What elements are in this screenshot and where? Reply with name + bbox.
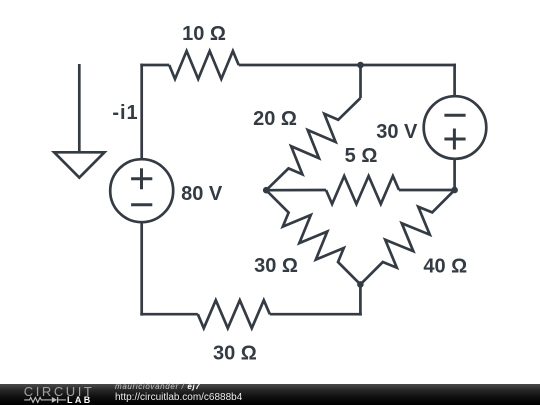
footer bar [0,384,540,405]
voltage source V1 80V [110,159,173,222]
wire: left rail bottom (V1 bottom down to bottom-left corner) [140,221,143,315]
resistor R6 30ohm (bottom) [198,300,270,328]
svg-text:80 V: 80 V [181,183,223,205]
resistor R2 20ohm (diagonal upper) [266,98,360,190]
logo wire to diode [44,399,52,401]
svg-text:-i1: -i1 [112,102,138,124]
node: left bridge junction [263,187,270,194]
node: bottom junction [357,281,364,288]
resistor R5 40ohm (diagonal lower-right) [360,190,454,284]
logo resistor zigzag [24,397,43,402]
logo diode triangle [52,397,57,403]
wire: left bridge node to R3 left terminal [266,189,326,192]
wire: left rail top (corner down to V1 top) [140,64,143,161]
svg-text:5 Ω: 5 Ω [345,145,378,167]
CircuitLab logo mini-schematic (resistor and diode) [24,396,66,404]
wire: bottom rail left (corner to R6 left terminal) [140,313,198,316]
resistor R1 10ohm (top) [169,51,239,79]
svg-text:10 Ω: 10 Ω [182,23,226,45]
wire: R6 right terminal to below bottom node [270,313,362,316]
wire: R3 right terminal to right bridge node [399,189,455,192]
wire: stub from bottom node down to bottom rail [359,284,362,315]
wire: V2 bottom down to right bridge node [453,158,456,190]
svg-text:30 Ω: 30 Ω [254,255,298,277]
svg-text:40 Ω: 40 Ω [423,256,467,278]
footer url text [115,393,242,403]
CircuitLab logo wordmark CIRCUIT [24,385,95,398]
wire: R1 right terminal through top node to top-right corner [239,64,456,67]
wire: stub from top node down to R2 upper terminal [359,65,362,98]
footer author text [115,383,201,391]
logo diode cathode bar [57,397,59,403]
wire: right rail top (corner down to V2 top) [453,64,456,98]
resistor R3 5ohm (bridge middle) [326,176,399,204]
svg-text:20 Ω: 20 Ω [253,108,297,130]
CircuitLab logo wordmark LAB [67,396,93,405]
svg-text:30 V: 30 V [376,121,418,143]
logo wire after diode [58,399,66,401]
node: top junction [357,62,364,69]
node: right bridge junction [451,187,458,194]
voltage source V2 30V [424,96,487,159]
wire: top-left corner to R1 left terminal [140,64,169,67]
svg-text:30 Ω: 30 Ω [213,342,257,364]
resistor R4 30ohm (diagonal lower-left) [266,190,360,284]
current arrow for -i1 [78,64,81,152]
